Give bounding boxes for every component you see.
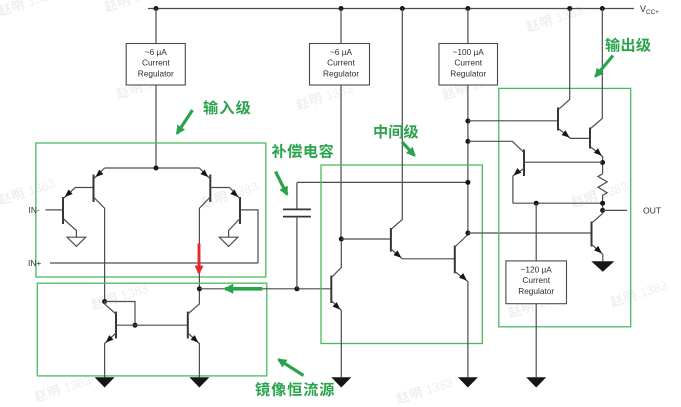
transistor Q10 emitter bbox=[558, 128, 590, 138]
wire Q12 collector bbox=[468, 141, 524, 152]
label output stage cn bbox=[605, 38, 650, 52]
wire summing node to Q7 base bbox=[199, 288, 331, 290]
resistor R1 bbox=[598, 174, 607, 214]
transistor Q1 bar bbox=[62, 197, 64, 224]
transistor Q9 bar bbox=[454, 246, 456, 274]
transistor Q3 emitter arrow bbox=[200, 170, 208, 178]
transistor Q12 emitter bbox=[513, 169, 524, 204]
wire sso to Q13 base bbox=[468, 232, 592, 234]
current regulator I1 ~6uA bbox=[126, 44, 185, 86]
arrow to output stage bbox=[596, 56, 614, 77]
node reg4 feed bbox=[534, 201, 539, 206]
svg-text:IN+: IN+ bbox=[28, 258, 41, 268]
wire I4 to ground bbox=[535, 304, 537, 378]
wire mirror diode link bbox=[105, 302, 135, 326]
svg-text:Regulator: Regulator bbox=[518, 286, 554, 296]
node rail-Q8c bbox=[567, 6, 572, 11]
svg-text:Current: Current bbox=[327, 58, 355, 68]
ground Q7 bbox=[331, 377, 351, 387]
ground Q9 bbox=[458, 377, 478, 387]
wire I1 to input-stage node bbox=[155, 85, 157, 168]
node rail-Q9c bbox=[600, 6, 605, 11]
label compensation cap cn bbox=[272, 144, 334, 158]
transistor Q8 collector bbox=[391, 9, 402, 230]
ground Q13 output bbox=[591, 261, 614, 272]
wire rail to regulator I2 bbox=[340, 9, 342, 44]
svg-text:Regulator: Regulator bbox=[323, 68, 359, 78]
transistor Q11 emitter bbox=[590, 147, 603, 174]
transistor Q11 collector bbox=[590, 9, 602, 130]
wire Q12e to resistor bottom bbox=[513, 202, 603, 204]
ground Q5m bbox=[95, 377, 115, 387]
current regulator I3 ~100uA bbox=[439, 44, 498, 86]
current regulator I2 ~6uA bbox=[310, 44, 370, 86]
node sso-Q12c bbox=[465, 139, 470, 144]
transistor Q13 emitter bbox=[592, 244, 603, 261]
node OUT bbox=[600, 208, 605, 213]
transistor Q4 base wire bbox=[240, 210, 258, 263]
wire IN- to Q1 base bbox=[46, 209, 64, 211]
node sso-Q13base bbox=[465, 231, 470, 236]
current regulator I4 ~120uA bbox=[506, 261, 567, 304]
transistor Q10 collector bbox=[558, 9, 570, 110]
node Q2c-Q5m bbox=[102, 299, 107, 304]
svg-text:~100 µA: ~100 µA bbox=[453, 47, 485, 57]
wire to regulator I4 bbox=[535, 203, 537, 261]
capacitor Cc top lead bbox=[296, 182, 298, 209]
transistor Q13 bar bbox=[591, 222, 593, 247]
middle stage box bbox=[321, 165, 482, 344]
arrow red into summing node bbox=[198, 244, 201, 274]
transistor Q3 emitter bbox=[199, 168, 210, 179]
transistor Q8 emitter bbox=[391, 249, 455, 259]
node sso-cap bbox=[465, 180, 470, 185]
transistor Q7 bar bbox=[330, 276, 332, 303]
node cap bottom bbox=[294, 286, 299, 291]
svg-text:~6 µA: ~6 µA bbox=[330, 47, 353, 57]
transistor Q3 collector bbox=[199, 197, 210, 289]
svg-text:Current: Current bbox=[142, 58, 170, 68]
transistor Q6m emitter bbox=[188, 333, 200, 377]
transistor Q7 collector bbox=[331, 239, 341, 278]
node summing bbox=[197, 286, 202, 291]
wire rail to regulator I3 bbox=[467, 9, 469, 44]
node sso-Q10base bbox=[465, 119, 470, 124]
transistor Q3 base wire bbox=[210, 187, 229, 189]
transistor Q9 emitter bbox=[455, 272, 468, 378]
transistor Q6m emitter arrow bbox=[191, 335, 199, 343]
wire Q7c to Q8 base bbox=[341, 238, 391, 240]
label input stage cn bbox=[203, 100, 250, 114]
svg-text:Regulator: Regulator bbox=[450, 68, 486, 78]
transistor Q5m bar bbox=[115, 312, 117, 339]
transistor Q12 base wire bbox=[524, 161, 603, 163]
node Q7 collector bbox=[339, 237, 344, 242]
transistor Q12 emitter arrow bbox=[514, 168, 522, 176]
transistor Q4 emitter bbox=[230, 188, 240, 199]
arrow to cap bbox=[276, 172, 288, 195]
svg-text:OUT: OUT bbox=[643, 206, 662, 216]
transistor Q8 emitter arrow bbox=[394, 250, 402, 258]
svg-text:~6 µA: ~6 µA bbox=[145, 47, 168, 57]
arrow to mirror box bbox=[279, 360, 304, 376]
wire sso to Q10 base bbox=[468, 120, 558, 122]
transistor Q5m collector bbox=[105, 302, 116, 315]
wire I2 to Q5 collector node bbox=[340, 85, 342, 239]
label middle stage cn bbox=[374, 124, 418, 138]
ground Q6m bbox=[189, 377, 209, 387]
transistor Q4 collector bbox=[229, 219, 240, 238]
transistor Q1 emitter arrow bbox=[65, 190, 73, 198]
node input tail bbox=[154, 166, 159, 171]
transistor Q11 emitter arrow bbox=[594, 148, 602, 156]
transistor Q3 bar bbox=[209, 175, 211, 203]
transistor Q13 collector bbox=[592, 213, 603, 223]
node rail-reg2 bbox=[339, 6, 344, 11]
svg-text:~120 µA: ~120 µA bbox=[521, 264, 553, 274]
transistor Q10 emitter arrow bbox=[562, 130, 570, 137]
transistor Q2 emitter arrow bbox=[96, 170, 104, 178]
transistor Q6m collector bbox=[188, 289, 200, 314]
wire Cc to second-stage output bbox=[297, 181, 468, 183]
transistor Q9 emitter arrow bbox=[459, 273, 467, 281]
transistor Q5m emitter arrow bbox=[106, 335, 114, 343]
current mirror box bbox=[37, 283, 266, 376]
node rail-reg1 bbox=[154, 6, 159, 11]
label mirror source cn bbox=[255, 382, 334, 396]
transistor Q1 emitter bbox=[63, 188, 94, 199]
transistor Q1 collector bbox=[63, 219, 76, 238]
input stage box bbox=[36, 143, 266, 277]
transistor Q4 emitter arrow bbox=[230, 190, 238, 198]
output stage box bbox=[499, 88, 631, 326]
svg-text:IN-: IN- bbox=[29, 205, 40, 215]
transistor Q2 bar bbox=[93, 175, 95, 203]
transistor Q8 bar bbox=[390, 228, 392, 252]
transistor Q7 emitter bbox=[331, 301, 341, 378]
transistor Q7 emitter arrow bbox=[333, 302, 341, 310]
svg-text:Current: Current bbox=[454, 58, 482, 68]
transistor Q4 bar bbox=[239, 197, 241, 224]
svg-text:Current: Current bbox=[522, 275, 550, 285]
transistor Q5m emitter bbox=[105, 333, 116, 377]
wire I3 down second-stage output node bbox=[467, 85, 469, 233]
transistor Q12 bar bbox=[523, 150, 525, 177]
transistor Q2 emitter bbox=[94, 168, 105, 179]
transistor Q6m bar bbox=[187, 312, 189, 339]
transistor Q2 collector bbox=[94, 197, 105, 301]
wire OUT bbox=[603, 209, 627, 211]
node rail-Q6c bbox=[400, 6, 405, 11]
wire input emitter rail bbox=[105, 167, 200, 169]
wire mirror base rail bbox=[116, 324, 188, 326]
node diode-base junction bbox=[133, 323, 138, 328]
arrow green feedback left bbox=[225, 287, 263, 291]
arrow to middle stage bbox=[402, 142, 415, 156]
capacitor Cc bottom lead bbox=[296, 217, 298, 289]
transistor Q13 emitter arrow bbox=[594, 246, 602, 254]
transistor Q10 bar bbox=[557, 108, 559, 131]
transistor Q9 collector bbox=[455, 235, 468, 248]
ground Q4 collector bbox=[219, 237, 238, 246]
transistor Q11 bar bbox=[589, 128, 591, 149]
svg-text:Regulator: Regulator bbox=[138, 68, 174, 78]
node R1 bottom bbox=[600, 201, 605, 206]
ground I4 bbox=[526, 377, 546, 387]
arrow to input stage bbox=[177, 110, 193, 134]
wire IN+ bbox=[50, 262, 258, 264]
node Q12 base junction bbox=[600, 160, 605, 165]
ground Q1 collector bbox=[67, 237, 86, 246]
node rail-reg3 bbox=[465, 6, 470, 11]
wire rail to regulator I1 bbox=[155, 9, 157, 44]
capacitor Cc plates bbox=[283, 209, 311, 216]
VCC rail wire bbox=[148, 8, 634, 10]
